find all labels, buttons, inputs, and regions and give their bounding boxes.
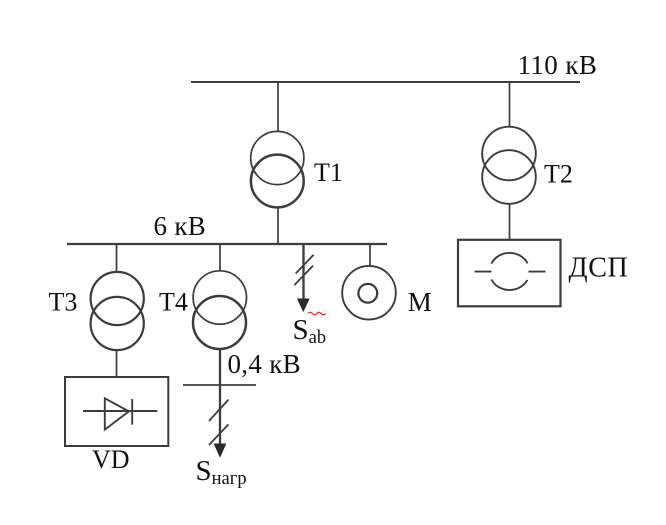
svg-text:М: М bbox=[408, 287, 432, 317]
load arrow Sab hatches bbox=[294, 255, 313, 285]
label 0,4 кВ bbox=[228, 349, 301, 379]
svg-text:ДСП: ДСП bbox=[569, 253, 629, 284]
label T2 bbox=[544, 160, 573, 189]
wire motor M bbox=[369, 244, 371, 266]
transformer T2 bbox=[482, 127, 536, 204]
load arrow Sab wire bbox=[302, 244, 304, 300]
label T3 bbox=[49, 288, 78, 317]
wire T2 primary bbox=[509, 82, 511, 127]
svg-text:6 кВ: 6 кВ bbox=[154, 211, 207, 241]
label ДСП bbox=[569, 253, 629, 284]
wire T4 primary bbox=[219, 244, 221, 271]
svg-text:110 кВ: 110 кВ bbox=[518, 50, 598, 80]
label T1 bbox=[314, 158, 343, 187]
wire T3 primary bbox=[116, 244, 118, 273]
svg-text:Т1: Т1 bbox=[314, 158, 343, 187]
wire T4 to 0,4 кВ bus bbox=[219, 349, 221, 446]
svg-text:Т3: Т3 bbox=[49, 288, 78, 317]
load arrow Sнагр hatches bbox=[209, 400, 228, 445]
svg-text:VD: VD bbox=[92, 445, 130, 474]
label T4 bbox=[159, 288, 188, 317]
wire T1 secondary bbox=[277, 207, 279, 244]
rectifier VD box bbox=[65, 377, 168, 446]
svg-text:Sнагр: Sнагр bbox=[196, 455, 247, 489]
label 6 кВ bbox=[154, 211, 207, 241]
transformer T3 bbox=[91, 272, 144, 350]
load arrow Sнагр head bbox=[214, 444, 225, 457]
spellcheck squiggle bbox=[308, 312, 326, 315]
svg-text:Т4: Т4 bbox=[159, 288, 188, 317]
label M bbox=[408, 287, 432, 317]
transformer T1 bbox=[251, 131, 304, 207]
label Sab bbox=[293, 314, 327, 348]
motor M bbox=[342, 266, 396, 320]
label 110 кВ bbox=[518, 50, 598, 80]
transformer T4 bbox=[193, 271, 247, 349]
wire T2 to ДСП bbox=[509, 204, 511, 240]
svg-text:0,4 кВ: 0,4 кВ bbox=[228, 349, 301, 379]
bus 0,4 кВ bbox=[183, 384, 256, 386]
diode symbol bbox=[83, 398, 157, 429]
load arrow Sab head bbox=[298, 299, 309, 311]
label VD bbox=[92, 445, 130, 474]
svg-text:Т2: Т2 bbox=[544, 160, 573, 189]
bus 110 кВ bbox=[191, 81, 580, 83]
bus 6 кВ bbox=[67, 243, 387, 245]
svg-text:Sab: Sab bbox=[293, 314, 327, 348]
wire T1 primary bbox=[277, 82, 279, 132]
wire T3 to VD bbox=[116, 350, 118, 377]
label Sнагр bbox=[196, 455, 247, 489]
arc furnace symbol bbox=[475, 253, 546, 290]
arc furnace ДСП box bbox=[458, 240, 561, 306]
